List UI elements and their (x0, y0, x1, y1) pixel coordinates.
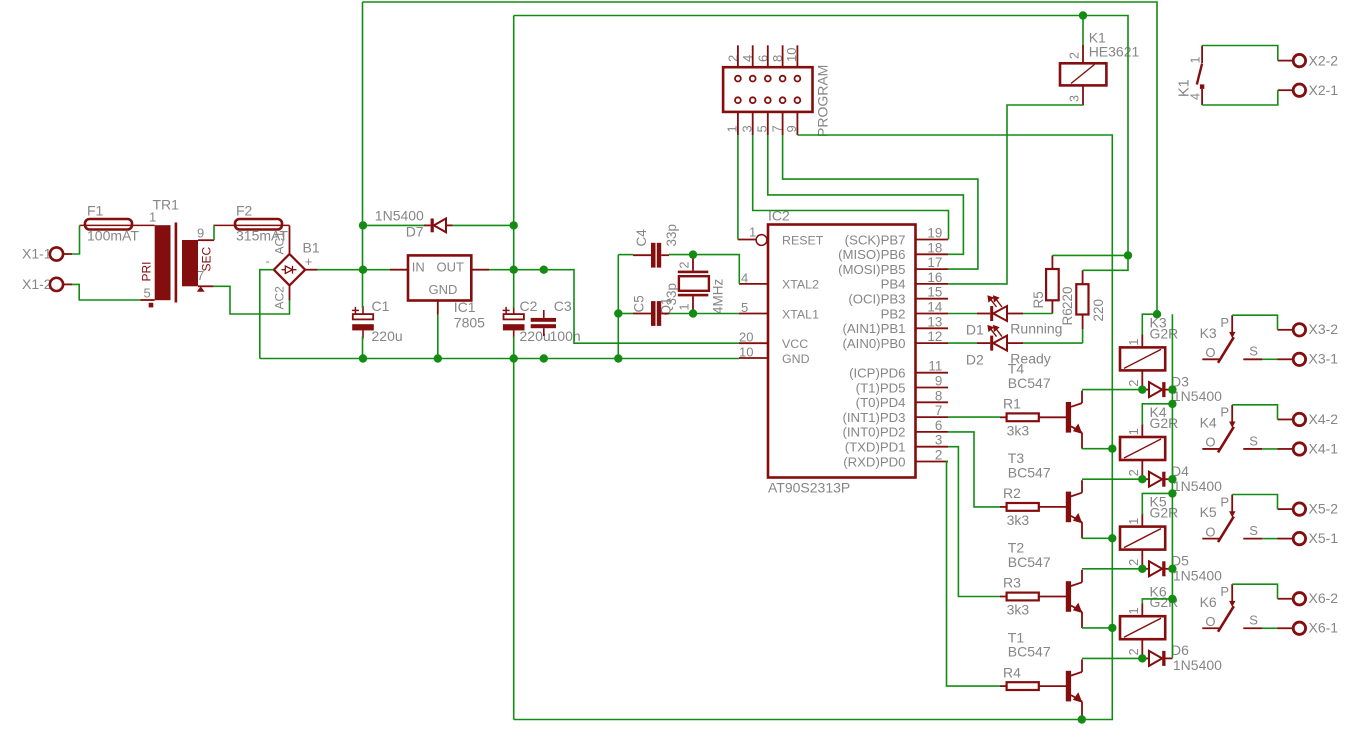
svg-text:X1-1: X1-1 (22, 246, 52, 262)
svg-text:1: 1 (1127, 339, 1141, 346)
svg-text:R6: R6 (1060, 308, 1075, 325)
svg-text:D1: D1 (966, 322, 984, 338)
svg-text:PB2: PB2 (881, 306, 906, 321)
svg-text:X6-1: X6-1 (1309, 620, 1339, 636)
svg-text:S: S (1249, 523, 1258, 538)
svg-text:R1: R1 (1003, 396, 1021, 412)
svg-text:+: + (305, 254, 313, 269)
svg-text:2: 2 (1127, 648, 1141, 655)
svg-text:(AIN1)PB1: (AIN1)PB1 (842, 321, 905, 336)
svg-text:RESET: RESET (782, 233, 824, 247)
svg-text:2: 2 (1127, 380, 1141, 387)
svg-text:D6: D6 (1171, 642, 1189, 658)
svg-text:Running: Running (1010, 321, 1062, 337)
svg-text:(RXD)PD0: (RXD)PD0 (843, 454, 905, 469)
svg-text:1N5400: 1N5400 (1173, 657, 1222, 673)
svg-text:13: 13 (927, 314, 942, 329)
svg-text:R3: R3 (1003, 575, 1021, 591)
svg-text:S: S (1249, 613, 1258, 628)
svg-text:HE3621: HE3621 (1089, 44, 1140, 60)
svg-text:R2: R2 (1003, 485, 1021, 501)
svg-text:X3-2: X3-2 (1309, 321, 1339, 337)
svg-text:3k3: 3k3 (1007, 602, 1030, 618)
svg-text:F2: F2 (236, 203, 253, 219)
svg-text:P: P (1220, 584, 1229, 599)
svg-text:O: O (1205, 614, 1215, 629)
svg-text:AT90S2313P: AT90S2313P (768, 480, 850, 496)
svg-text:(INT0)PD2: (INT0)PD2 (842, 425, 905, 440)
svg-text:1N5400: 1N5400 (1173, 388, 1222, 404)
svg-text:15: 15 (927, 285, 942, 300)
svg-text:4: 4 (1189, 93, 1203, 100)
svg-text:K5: K5 (1200, 504, 1217, 520)
svg-text:1N5400: 1N5400 (375, 208, 424, 224)
svg-text:VCC: VCC (782, 337, 808, 351)
svg-text:(MOSI)PB5: (MOSI)PB5 (838, 262, 905, 277)
svg-text:O: O (1205, 435, 1215, 450)
svg-text:5: 5 (144, 286, 151, 301)
svg-text:SEC: SEC (200, 246, 214, 271)
svg-text:P: P (1220, 494, 1229, 509)
svg-text:X2-1: X2-1 (1309, 82, 1339, 98)
svg-text:(INT1)PD3: (INT1)PD3 (842, 410, 905, 425)
svg-text:C3: C3 (554, 298, 572, 314)
svg-text:P: P (1220, 315, 1229, 330)
svg-text:17: 17 (927, 255, 942, 270)
svg-text:19: 19 (927, 226, 942, 241)
svg-text:X5-2: X5-2 (1309, 501, 1339, 517)
svg-text:AC1: AC1 (273, 231, 287, 255)
svg-text:BC547: BC547 (1008, 465, 1051, 481)
svg-text:(T0)PD4: (T0)PD4 (856, 395, 906, 410)
svg-text:11: 11 (928, 359, 942, 374)
svg-text:S: S (1249, 433, 1258, 448)
svg-text:220: 220 (1060, 286, 1075, 309)
svg-text:PB4: PB4 (881, 277, 906, 292)
svg-text:100n: 100n (550, 328, 581, 344)
svg-text:X6-2: X6-2 (1309, 590, 1339, 606)
svg-text:1: 1 (1189, 57, 1203, 64)
svg-text:3: 3 (935, 433, 942, 448)
svg-text:9: 9 (197, 226, 204, 241)
svg-text:1: 1 (1127, 428, 1141, 435)
svg-text:(AIN0)PB0: (AIN0)PB0 (842, 336, 905, 351)
svg-text:12: 12 (927, 329, 942, 344)
svg-text:6: 6 (935, 418, 942, 433)
svg-text:GND: GND (782, 352, 810, 366)
svg-text:X4-2: X4-2 (1309, 411, 1339, 427)
svg-text:(MISO)PB6: (MISO)PB6 (838, 247, 905, 262)
svg-text:16: 16 (927, 270, 942, 285)
svg-text:-: - (266, 254, 270, 269)
svg-text:1N5400: 1N5400 (1173, 478, 1222, 494)
svg-text:X5-1: X5-1 (1309, 530, 1339, 546)
svg-text:3: 3 (1068, 95, 1082, 102)
svg-text:P: P (1220, 405, 1229, 420)
svg-text:X3-1: X3-1 (1309, 351, 1339, 367)
svg-text:XTAL2: XTAL2 (782, 278, 819, 292)
svg-text:1: 1 (1127, 518, 1141, 525)
svg-text:1: 1 (1127, 607, 1141, 614)
svg-text:7805: 7805 (454, 315, 485, 331)
svg-text:S: S (1249, 344, 1258, 359)
svg-text:2: 2 (1127, 559, 1141, 566)
svg-text:3k3: 3k3 (1007, 423, 1030, 439)
svg-text:(OCI)PB3: (OCI)PB3 (848, 292, 905, 307)
svg-text:2: 2 (1068, 52, 1082, 59)
svg-text:R4: R4 (1003, 664, 1021, 680)
svg-text:K6: K6 (1200, 594, 1217, 610)
svg-text:1: 1 (149, 210, 156, 225)
svg-text:AC2: AC2 (273, 286, 287, 310)
svg-text:K3: K3 (1200, 325, 1217, 341)
svg-text:G2R: G2R (1150, 505, 1179, 521)
svg-text:G2R: G2R (1150, 415, 1179, 431)
svg-text:14: 14 (927, 300, 942, 315)
svg-text:2: 2 (678, 262, 692, 269)
svg-text:C5: C5 (632, 295, 647, 312)
svg-text:1: 1 (678, 304, 692, 311)
svg-text:(SCK)PB7: (SCK)PB7 (845, 232, 906, 247)
svg-text:GND: GND (429, 282, 458, 297)
svg-text:G2R: G2R (1150, 325, 1179, 341)
svg-text:18: 18 (927, 240, 942, 255)
svg-text:PROGRAM: PROGRAM (815, 65, 831, 137)
svg-text:O: O (1205, 524, 1215, 539)
svg-text:(T1)PD5: (T1)PD5 (856, 380, 906, 395)
svg-text:X4-1: X4-1 (1309, 440, 1339, 456)
svg-text:2: 2 (935, 448, 942, 463)
svg-text:BC547: BC547 (1008, 375, 1051, 391)
svg-text:BC547: BC547 (1008, 554, 1051, 570)
svg-text:C1: C1 (372, 298, 390, 314)
svg-text:220u: 220u (372, 328, 403, 344)
svg-text:33p: 33p (664, 283, 679, 306)
svg-text:4MHz: 4MHz (711, 278, 726, 314)
svg-text:D2: D2 (966, 352, 984, 368)
svg-text:33p: 33p (664, 224, 679, 247)
svg-text:K4: K4 (1200, 414, 1217, 430)
svg-text:C4: C4 (634, 229, 649, 247)
svg-text:8: 8 (935, 388, 942, 403)
svg-text:TR1: TR1 (153, 197, 180, 213)
svg-text:(ICP)PD6: (ICP)PD6 (849, 366, 905, 381)
svg-text:PRI: PRI (140, 261, 154, 281)
svg-text:7: 7 (935, 403, 942, 418)
svg-text:F1: F1 (87, 203, 104, 219)
svg-text:1N5400: 1N5400 (1173, 567, 1222, 583)
svg-text:R5: R5 (1031, 291, 1046, 308)
svg-text:IN: IN (412, 260, 425, 275)
svg-text:1: 1 (749, 225, 756, 240)
svg-text:C2: C2 (520, 298, 538, 314)
svg-text:XTAL1: XTAL1 (782, 307, 819, 321)
svg-text:OUT: OUT (437, 260, 465, 275)
svg-text:O: O (1205, 345, 1215, 360)
svg-text:3k3: 3k3 (1007, 512, 1030, 528)
svg-text:(TXD)PD1: (TXD)PD1 (845, 440, 906, 455)
svg-text:9: 9 (935, 374, 942, 389)
svg-text:220: 220 (1091, 299, 1106, 322)
svg-text:BC547: BC547 (1008, 644, 1051, 660)
svg-text:X1-2: X1-2 (22, 276, 52, 292)
svg-text:2: 2 (1127, 469, 1141, 476)
svg-text:X2-2: X2-2 (1309, 53, 1339, 69)
